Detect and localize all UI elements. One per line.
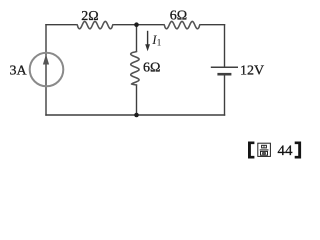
svg-text:44: 44	[278, 143, 294, 159]
svg-text:6Ω: 6Ω	[170, 9, 187, 24]
svg-text:2Ω: 2Ω	[81, 9, 98, 24]
svg-text:3A: 3A	[9, 64, 27, 79]
svg-text:6Ω: 6Ω	[143, 60, 160, 75]
svg-text:12V: 12V	[240, 64, 264, 79]
